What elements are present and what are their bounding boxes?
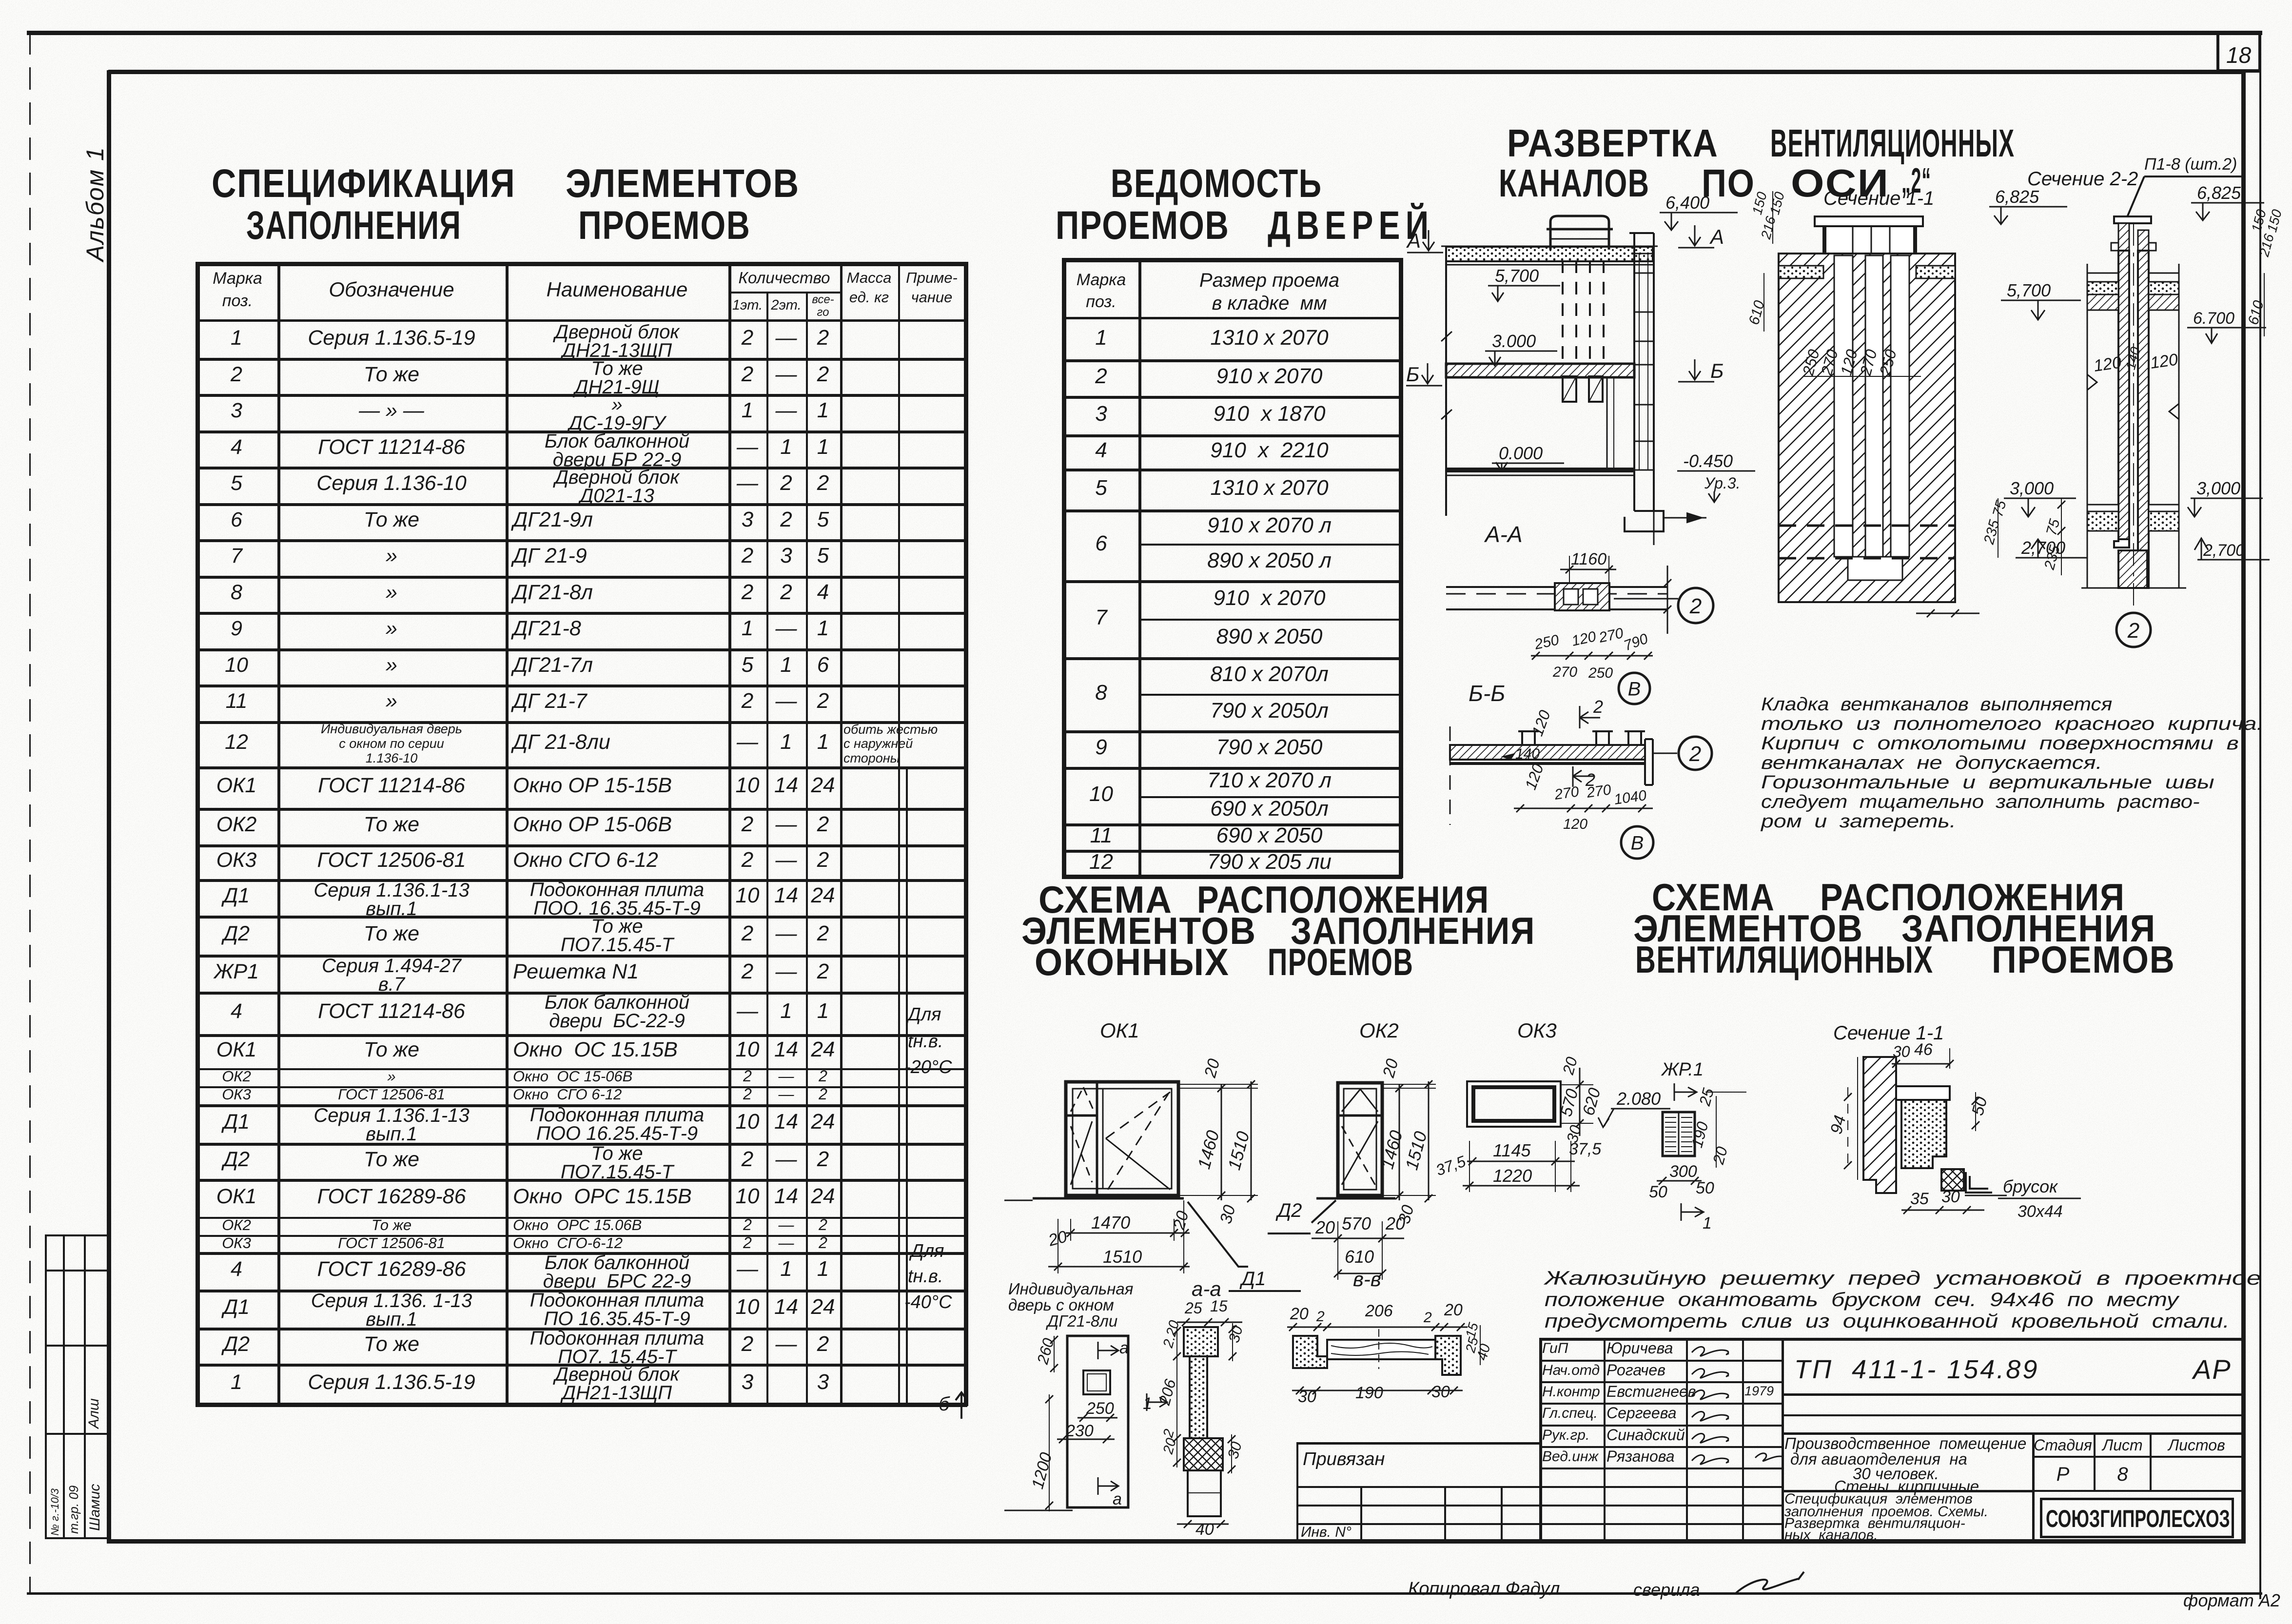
svg-text:а: а [1113, 1490, 1122, 1508]
svg-text:а-а: а-а [1192, 1277, 1221, 1300]
svg-text:ОК3: ОК3 [1517, 1019, 1557, 1042]
svg-text:50: 50 [1649, 1183, 1667, 1201]
svg-text:35: 35 [1910, 1190, 1929, 1208]
svg-text:206: 206 [1365, 1302, 1393, 1320]
svg-text:2: 2 [1689, 594, 1702, 618]
svg-text:30: 30 [1941, 1188, 1960, 1206]
svg-text:1510: 1510 [1103, 1247, 1142, 1267]
svg-text:30х44: 30х44 [2018, 1202, 2063, 1221]
svg-text:610: 610 [1345, 1247, 1374, 1267]
svg-text:6,825: 6,825 [2197, 183, 2241, 203]
svg-text:50: 50 [1696, 1179, 1714, 1197]
svg-text:30: 30 [1431, 1383, 1450, 1401]
svg-text:270: 270 [1552, 664, 1577, 680]
svg-text:Б: Б [1710, 359, 1724, 382]
svg-text:20: 20 [1315, 1217, 1335, 1237]
svg-text:А: А [1406, 229, 1421, 252]
svg-text:570: 570 [1342, 1213, 1371, 1233]
svg-text:2: 2 [1423, 1310, 1432, 1326]
svg-text:3,000: 3,000 [2010, 478, 2054, 498]
svg-text:30: 30 [1893, 1043, 1910, 1060]
svg-text:25: 25 [1184, 1299, 1202, 1317]
svg-text:ЖР.1: ЖР.1 [1661, 1059, 1704, 1080]
svg-text:37,5: 37,5 [1569, 1140, 1601, 1158]
svg-text:брусок: брусок [2003, 1176, 2058, 1196]
svg-text:ОК1: ОК1 [1100, 1019, 1139, 1042]
svg-text:Ур.3.: Ур.3. [1704, 474, 1740, 492]
svg-text:1160: 1160 [1571, 550, 1606, 568]
svg-text:5,700: 5,700 [2007, 280, 2051, 300]
svg-text:1: 1 [1703, 1214, 1712, 1233]
svg-text:120: 120 [2149, 350, 2179, 372]
svg-text:0.000: 0.000 [1499, 443, 1543, 463]
svg-text:Д1: Д1 [1239, 1268, 1266, 1290]
svg-text:3.000: 3.000 [1492, 331, 1536, 351]
svg-text:40: 40 [1195, 1520, 1214, 1539]
svg-text:2.080: 2.080 [1616, 1089, 1661, 1109]
svg-text:6.700: 6.700 [2193, 309, 2234, 328]
svg-text:А: А [1709, 225, 1724, 248]
svg-text:20: 20 [1385, 1213, 1405, 1233]
svg-text:20: 20 [1444, 1301, 1463, 1319]
svg-text:В: В [1631, 832, 1644, 854]
svg-text:140: 140 [1515, 746, 1540, 762]
svg-text:2: 2 [1316, 1309, 1325, 1325]
svg-text:6,825: 6,825 [1995, 187, 2039, 207]
svg-text:а: а [1119, 1339, 1129, 1357]
svg-text:2: 2 [1593, 697, 1603, 717]
svg-text:250: 250 [1086, 1399, 1114, 1418]
svg-text:2: 2 [2127, 619, 2139, 643]
svg-text:2,700: 2,700 [2203, 541, 2245, 560]
svg-text:6,400: 6,400 [1665, 193, 1709, 213]
svg-text:Б: Б [1406, 363, 1419, 386]
svg-text:15: 15 [1210, 1297, 1228, 1315]
svg-text:В: В [1628, 678, 1641, 700]
svg-text:46: 46 [1914, 1040, 1933, 1059]
svg-text:Д2: Д2 [1275, 1200, 1302, 1221]
svg-text:в-в: в-в [1353, 1268, 1381, 1291]
svg-text:Б-Б: Б-Б [1469, 681, 1505, 706]
svg-text:120: 120 [2093, 353, 2123, 375]
svg-text:20: 20 [1290, 1305, 1309, 1323]
svg-text:30: 30 [1298, 1388, 1316, 1406]
svg-text:3,000: 3,000 [2196, 478, 2240, 498]
svg-text:1220: 1220 [1493, 1166, 1532, 1186]
svg-text:1470: 1470 [1091, 1213, 1130, 1233]
svg-text:1145: 1145 [1493, 1140, 1531, 1160]
svg-text:2: 2 [1689, 742, 1701, 766]
svg-text:5,700: 5,700 [1495, 266, 1539, 286]
svg-text:А-А: А-А [1484, 522, 1523, 547]
svg-text:120: 120 [1563, 816, 1587, 832]
svg-text:-0.450: -0.450 [1683, 451, 1733, 471]
svg-text:300: 300 [1669, 1162, 1697, 1181]
svg-text:ОК2: ОК2 [1359, 1019, 1399, 1042]
svg-text:230: 230 [1065, 1422, 1094, 1440]
svg-text:250: 250 [1588, 665, 1613, 681]
svg-text:190: 190 [1355, 1384, 1383, 1402]
